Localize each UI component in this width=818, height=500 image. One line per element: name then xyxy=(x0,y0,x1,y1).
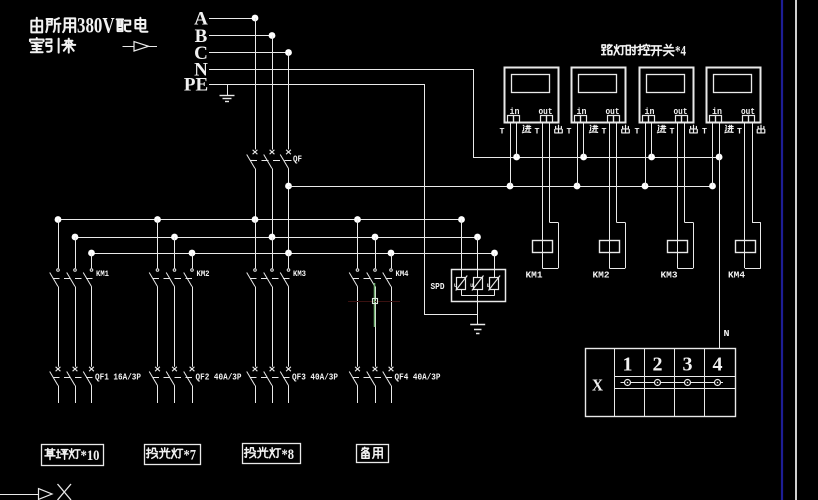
svg-text:*10: *10 xyxy=(81,448,100,464)
label terminal 3 xyxy=(683,354,693,376)
svg-text:u: u xyxy=(454,282,457,289)
label QF2 40A/3P xyxy=(196,373,243,383)
varistor MOV3 xyxy=(487,276,500,291)
node bus-A x255 xyxy=(252,216,259,223)
wire SPD common bus xyxy=(462,295,495,297)
contactor KM1 pole1 xyxy=(50,269,60,287)
wire feeder KM4 pole1 lower xyxy=(357,386,359,404)
label TS1 jin xyxy=(522,125,530,132)
label KM4 contactor xyxy=(396,269,409,279)
title text incoming line 2 xyxy=(30,38,75,53)
contactor KM1 pole2 xyxy=(67,269,77,287)
bus phase A horizontal xyxy=(58,219,462,221)
node bus-C x192 xyxy=(189,250,196,257)
circuit breaker QF pole A xyxy=(247,18,258,169)
contactor KM1 pole3 xyxy=(83,269,93,287)
breaker QF1 pole2 xyxy=(67,367,78,386)
contactor coil KM2 xyxy=(600,241,620,253)
svg-text:T: T xyxy=(737,128,742,137)
node control-bus x510 xyxy=(507,183,514,190)
ground symbol at SPD xyxy=(470,325,485,334)
svg-text:QF1 16A/3P: QF1 16A/3P xyxy=(95,373,142,383)
contactor KM2 link dashes xyxy=(153,278,195,280)
wire TS2 in-N drop xyxy=(583,122,585,157)
label phase A xyxy=(194,9,208,30)
time switch TS2 terminal 3 xyxy=(608,116,614,123)
wire neutral to terminal block xyxy=(719,157,721,348)
label TS2 jin xyxy=(589,125,597,132)
wire MOV1 bottom xyxy=(461,289,463,296)
terminal block band bottom xyxy=(615,388,736,390)
drawing frame white line xyxy=(795,0,797,500)
wire TS1 out-T drop xyxy=(542,122,544,268)
ground symbol at PE xyxy=(220,84,235,102)
wire feeder KM2 pole2 lower xyxy=(174,386,176,404)
terminal block divider 4 xyxy=(704,348,706,416)
svg-text:380V: 380V xyxy=(77,13,115,38)
label phase B xyxy=(195,26,208,47)
wire feeder KM2 pole1 middle xyxy=(157,287,159,367)
label TS2 T2 xyxy=(602,128,607,137)
breaker QF3 pole3 xyxy=(280,367,291,386)
wire feeder KM2 pole3 lower xyxy=(192,386,194,404)
time switch TS2 display xyxy=(579,75,617,93)
wire QF out C xyxy=(288,169,290,254)
wire SPD drop A xyxy=(461,220,463,278)
wire TS4 out-T drop xyxy=(744,122,746,268)
contactor KM4 pole1 xyxy=(349,269,359,287)
bus neutral (to timers) xyxy=(473,157,719,159)
terminal point 4 xyxy=(715,380,721,386)
wire feeder KM1 pole3 middle xyxy=(91,287,93,367)
wire feeder KM2 pole1 upper xyxy=(157,220,159,269)
breaker QF2 pole1 xyxy=(149,367,160,386)
label KM3 contactor xyxy=(293,269,306,279)
label TS3 T2 xyxy=(670,128,675,137)
wire feeder KM1 pole3 upper xyxy=(91,253,93,268)
wire MOV3 bottom xyxy=(494,289,496,296)
svg-text:u: u xyxy=(470,282,473,289)
time switch TS2 label out xyxy=(606,107,620,117)
time switch TS1 terminal 4 xyxy=(547,116,553,123)
contactor KM2 pole1 xyxy=(149,269,159,287)
svg-text:T: T xyxy=(567,128,572,137)
cursor crosshair horizontal xyxy=(348,301,400,303)
time switch TS1 body xyxy=(505,68,559,123)
node junction A xyxy=(252,15,259,22)
time switch TS2 terminal 4 xyxy=(614,116,620,123)
wire SPD earth drop xyxy=(477,296,479,324)
wire feeder KM3 pole2 lower xyxy=(272,386,274,404)
time switch TS2 body xyxy=(572,68,626,123)
label TS4 T1 xyxy=(702,128,707,137)
node bus-C x391 xyxy=(388,250,395,257)
wire feeder KM2 pole1 lower xyxy=(157,386,159,404)
label KM1 contactor xyxy=(96,269,109,279)
terminal block link line xyxy=(621,382,724,384)
load label box 3 xyxy=(243,444,301,464)
load label spare xyxy=(362,447,383,458)
breaker QF4 pole2 xyxy=(367,367,378,386)
wire feeder KM4 pole1 upper xyxy=(357,220,359,269)
wire TS4 out-N drop xyxy=(745,122,761,269)
time switch TS2 label in xyxy=(577,107,587,117)
load label lawn lamps xyxy=(45,448,100,464)
wire feeder KM4 pole3 upper xyxy=(391,253,393,268)
svg-text:KM3: KM3 xyxy=(661,271,678,281)
contactor KM4 pole3 xyxy=(383,269,393,287)
time switch TS3 label out xyxy=(674,107,688,117)
time switch TS1 terminal 2 xyxy=(514,116,520,123)
label phase PE xyxy=(184,75,208,96)
label TS3 jin xyxy=(657,125,665,132)
svg-text:QF4 40A/3P: QF4 40A/3P xyxy=(395,373,442,383)
svg-text:KM4: KM4 xyxy=(396,269,409,279)
contactor coil KM4 xyxy=(736,241,756,253)
wire feeder KM1 pole1 middle xyxy=(58,287,60,367)
node bus-B x75 xyxy=(72,234,79,241)
svg-text:*4: *4 xyxy=(675,44,686,60)
svg-text:u: u xyxy=(487,282,490,289)
svg-text:T: T xyxy=(602,128,607,137)
time switch TS3 terminal 3 xyxy=(676,116,682,123)
label TS4 jin xyxy=(725,125,733,132)
load label flood lamps 7 xyxy=(147,448,197,464)
contactor KM4 link dashes xyxy=(353,278,394,280)
time switch TS2 terminal 2 xyxy=(581,116,587,123)
label terminal 2 xyxy=(653,354,663,376)
UCS axis X glyph xyxy=(58,484,72,500)
load label box 4 xyxy=(357,445,389,463)
label coil KM3 xyxy=(661,271,678,281)
svg-text:QF2 40A/3P: QF2 40A/3P xyxy=(196,373,243,383)
wire feeder KM1 pole2 middle xyxy=(75,287,77,367)
svg-text:T: T xyxy=(635,128,640,137)
time switch TS3 display xyxy=(647,75,685,93)
breaker QF1 link dashes xyxy=(53,377,94,379)
node junction B xyxy=(269,32,276,39)
wire feeder KM3 pole3 lower xyxy=(288,386,290,404)
wire feeder KM1 pole2 lower xyxy=(75,386,77,404)
svg-text:KM3: KM3 xyxy=(293,269,306,279)
bus control phase (to timers) xyxy=(289,186,713,188)
wire feeder KM3 pole2 middle xyxy=(272,287,274,367)
wire feeder KM2 pole3 upper xyxy=(192,253,194,268)
label phase N xyxy=(194,60,208,81)
time switch TS1 label out xyxy=(539,107,553,117)
node QF-C to control bus xyxy=(285,183,292,190)
contactor KM1 link dashes xyxy=(53,278,94,280)
svg-text:KM2: KM2 xyxy=(197,269,210,279)
node control-bus x577 xyxy=(574,183,581,190)
cursor pickbox xyxy=(373,299,378,304)
label TS3 chu xyxy=(690,125,698,133)
time switch TS3 terminal 1 xyxy=(643,116,649,123)
node bus-C x91.5 xyxy=(88,250,95,257)
time switch TS4 terminal 4 xyxy=(749,116,755,123)
label QF3 40A/3P xyxy=(292,373,339,383)
terminal block band top xyxy=(615,376,736,378)
contactor KM3 pole1 xyxy=(247,269,257,287)
label terminal block X xyxy=(592,376,604,395)
breaker QF4 pole3 xyxy=(383,367,394,386)
breaker QF4 pole1 xyxy=(349,367,360,386)
wire TS3 out-N drop xyxy=(677,122,693,269)
node bus-B x375 xyxy=(372,234,379,241)
svg-text:KM1: KM1 xyxy=(96,269,109,279)
label TS1 T1 xyxy=(500,128,505,137)
node bus-B x174.5 xyxy=(171,234,178,241)
label TS2 T1 xyxy=(567,128,572,137)
label coil KM2 xyxy=(593,271,610,281)
varistor MOV1 xyxy=(454,276,467,291)
time switch TS4 terminal 1 xyxy=(710,116,716,123)
node neutral-bus x583.6 xyxy=(580,154,587,161)
svg-text:PE: PE xyxy=(184,75,208,96)
svg-text:N: N xyxy=(724,329,730,339)
label terminal 1 xyxy=(623,354,633,376)
wire feeder KM3 pole1 middle xyxy=(255,287,257,367)
label TS4 T2 xyxy=(737,128,742,137)
breaker QF4 link dashes xyxy=(353,377,394,379)
node bus-A x357.5 xyxy=(354,216,361,223)
time switch TS1 display xyxy=(512,75,550,93)
incoming arrow symbol xyxy=(123,42,158,51)
contactor KM3 pole2 xyxy=(264,269,274,287)
wire feeder KM4 pole2 lower xyxy=(375,386,377,404)
contactor coil KM3 xyxy=(668,241,688,253)
node neutral-bus x651.6 xyxy=(648,154,655,161)
wire feeder KM3 pole3 middle xyxy=(288,287,290,367)
contactor KM4 pole2 xyxy=(367,269,377,287)
svg-text:*8: *8 xyxy=(282,447,295,463)
svg-text:T: T xyxy=(702,128,707,137)
contactor KM3 link dashes xyxy=(250,278,291,280)
wire TS1 in-N drop xyxy=(516,122,518,157)
label QF1 16A/3P xyxy=(95,373,142,383)
svg-text:QF: QF xyxy=(293,155,302,165)
cursor vertical green line xyxy=(374,283,376,327)
svg-text:KM2: KM2 xyxy=(593,271,610,281)
node bus-A x58 xyxy=(55,216,62,223)
wire phase B line xyxy=(209,35,272,37)
label TS1 chu xyxy=(555,125,563,133)
node bus-C x288.5 xyxy=(285,250,292,257)
label timer title xyxy=(602,44,687,60)
wire phase C line xyxy=(209,52,289,54)
contactor KM3 pole3 xyxy=(280,269,290,287)
load label flood lamps 8 xyxy=(245,447,295,463)
wire TS1 in-T drop xyxy=(510,122,512,186)
wire QF out B xyxy=(272,169,274,238)
svg-text:1: 1 xyxy=(623,354,633,376)
breaker QF2 pole3 xyxy=(184,367,195,386)
wire feeder KM4 pole3 lower xyxy=(391,386,393,404)
node bus-A x461.5 xyxy=(458,216,465,223)
time switch TS4 label out xyxy=(741,107,755,117)
contactor KM2 pole2 xyxy=(166,269,176,287)
wire SPD drop B xyxy=(477,237,479,277)
label QF4 40A/3P xyxy=(395,373,442,383)
label QF xyxy=(293,155,302,165)
time switch TS3 label in xyxy=(645,107,655,117)
wire MOV2 bottom xyxy=(477,289,479,296)
node neutral-bus x719.1 xyxy=(716,154,723,161)
terminal point 2 xyxy=(655,380,661,386)
UCS axis arrow xyxy=(0,489,52,500)
wire feeder KM4 pole2 upper xyxy=(375,237,377,268)
breaker QF link dashes xyxy=(250,160,293,162)
breaker QF2 link dashes xyxy=(153,377,195,379)
wire SPD drop C xyxy=(494,253,496,277)
wire feeder KM2 pole2 middle xyxy=(174,287,176,367)
label coil KM4 xyxy=(728,271,746,281)
svg-text:T: T xyxy=(535,128,540,137)
wire phase N line xyxy=(209,69,474,157)
wire TS4 in-N drop xyxy=(719,122,721,157)
wire feeder KM3 pole1 lower xyxy=(255,386,257,404)
wire feeder KM3 pole3 upper xyxy=(288,253,290,268)
wire feeder KM2 pole3 middle xyxy=(192,287,194,367)
wire TS2 out-N drop xyxy=(609,122,625,269)
bus phase C horizontal xyxy=(92,253,495,255)
svg-text:*7: *7 xyxy=(184,448,197,464)
terminal point 3 xyxy=(685,380,691,386)
drawing frame blue line xyxy=(781,0,783,500)
node control-bus x712.5 xyxy=(709,183,716,190)
label TS4 chu xyxy=(757,125,765,133)
breaker QF3 link dashes xyxy=(250,377,291,379)
load label box 2 xyxy=(145,445,201,465)
time switch TS1 terminal 1 xyxy=(508,116,514,123)
breaker QF1 pole1 xyxy=(50,367,61,386)
time switch TS1 terminal 3 xyxy=(541,116,547,123)
terminal block divider 2 xyxy=(644,348,646,416)
time switch TS1 label in xyxy=(510,107,520,117)
svg-text:3: 3 xyxy=(683,354,693,376)
wire phase A line xyxy=(209,18,255,20)
wire TS4 in-T drop xyxy=(712,122,714,186)
varistor MOV2 xyxy=(470,276,483,291)
wire TS3 out-T drop xyxy=(677,122,679,268)
label N at terminal block xyxy=(724,329,730,339)
wire feeder KM3 pole2 upper xyxy=(272,237,274,268)
node bus-C x494.5 xyxy=(491,250,498,257)
terminal point 1 xyxy=(625,380,631,386)
time switch TS3 terminal 4 xyxy=(682,116,688,123)
label SPD xyxy=(431,281,445,292)
title text 380V incoming line 1 xyxy=(31,13,147,38)
wire feeder KM2 pole2 upper xyxy=(174,237,176,268)
circuit breaker QF pole C xyxy=(280,53,291,169)
wire TS2 out-T drop xyxy=(609,122,611,268)
node bus-B x272 xyxy=(269,234,276,241)
label TS2 chu xyxy=(622,125,630,133)
wire feeder KM1 pole3 lower xyxy=(91,386,93,404)
terminal block divider 1 xyxy=(614,348,616,416)
label terminal 4 xyxy=(713,354,723,376)
svg-text:KM1: KM1 xyxy=(526,271,544,281)
svg-text:KM4: KM4 xyxy=(728,271,746,281)
svg-text:X: X xyxy=(592,376,604,395)
wire TS2 in-T drop xyxy=(577,122,579,186)
wire PE to SPD earth xyxy=(424,314,478,316)
contactor coil KM1 xyxy=(533,241,553,253)
wire feeder KM4 pole2 middle xyxy=(375,287,377,367)
time switch TS4 terminal 3 xyxy=(743,116,749,123)
label KM2 contactor xyxy=(197,269,210,279)
wire TS3 in-T drop xyxy=(645,122,647,186)
breaker QF3 pole2 xyxy=(264,367,275,386)
wire feeder KM4 pole1 middle xyxy=(357,287,359,367)
label coil KM1 xyxy=(526,271,544,281)
node control-bus x645 xyxy=(642,183,649,190)
SPD box xyxy=(452,270,506,302)
wire feeder KM3 pole1 upper xyxy=(255,220,257,269)
wire QF out A xyxy=(255,169,257,220)
breaker QF1 pole3 xyxy=(83,367,94,386)
label phase C xyxy=(194,43,208,64)
terminal block X outline xyxy=(586,349,736,417)
wire feeder KM4 pole3 middle xyxy=(391,287,393,367)
node bus-A x157.5 xyxy=(154,216,161,223)
wire TS1 out-N drop xyxy=(542,122,558,269)
breaker QF2 pole2 xyxy=(166,367,177,386)
svg-text:T: T xyxy=(500,128,505,137)
contactor KM2 pole3 xyxy=(184,269,194,287)
node junction C xyxy=(285,49,292,56)
bus phase B horizontal xyxy=(75,237,478,239)
load label box 1 xyxy=(42,445,104,466)
time switch TS3 body xyxy=(640,68,694,123)
label TS3 T1 xyxy=(635,128,640,137)
svg-text:4: 4 xyxy=(713,354,723,376)
time switch TS4 body xyxy=(707,68,761,123)
wire feeder KM1 pole1 lower xyxy=(58,386,60,404)
svg-text:2: 2 xyxy=(653,354,663,376)
svg-text:T: T xyxy=(670,128,675,137)
circuit breaker QF pole B xyxy=(264,36,275,169)
svg-text:QF3 40A/3P: QF3 40A/3P xyxy=(292,373,339,383)
time switch TS4 label in xyxy=(712,107,722,117)
wire feeder KM1 pole1 upper xyxy=(58,220,60,269)
wire phase PE line xyxy=(209,84,425,315)
node bus-B x477.5 xyxy=(474,234,481,241)
node neutral-bus x516.6 xyxy=(513,154,520,161)
label TS1 T2 xyxy=(535,128,540,137)
svg-text:SPD: SPD xyxy=(431,281,445,292)
wire TS3 in-N drop xyxy=(651,122,653,157)
terminal block divider 3 xyxy=(674,348,676,416)
time switch TS4 display xyxy=(714,75,752,93)
time switch TS3 terminal 2 xyxy=(649,116,655,123)
time switch TS4 terminal 2 xyxy=(716,116,722,123)
wire feeder KM1 pole2 upper xyxy=(75,237,77,268)
time switch TS2 terminal 1 xyxy=(575,116,581,123)
breaker QF3 pole1 xyxy=(247,367,258,386)
